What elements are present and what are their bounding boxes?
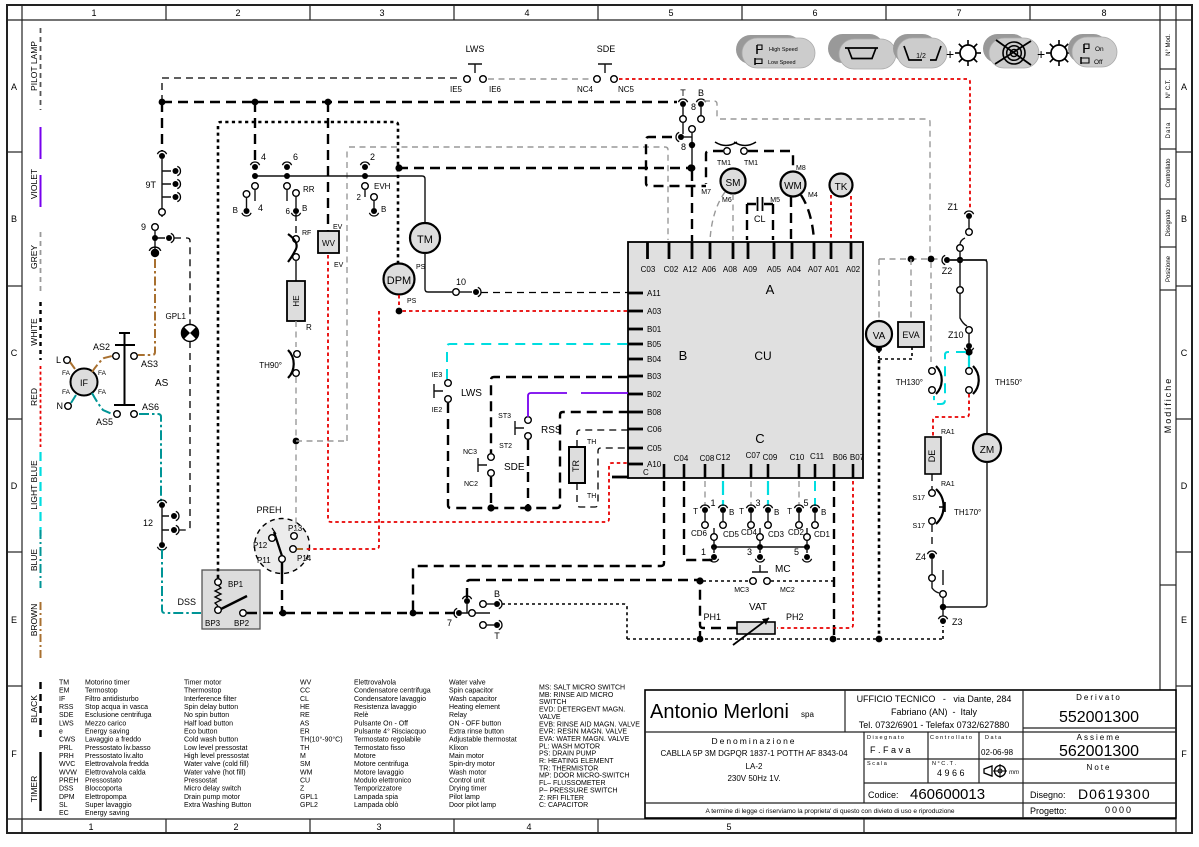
icon speed selector [736, 35, 815, 68]
wire dotted VA trunk [876, 360, 883, 642]
svg-text:RF: RF [302, 230, 311, 237]
svg-text:F . F a v a: F . F a v a [870, 745, 911, 755]
svg-text:MB: RINSE AID MICRO: MB: RINSE AID MICRO [539, 692, 614, 699]
svg-text:WM: WM [300, 769, 313, 776]
wire grey SM M6 [732, 194, 734, 240]
svg-text:NC5: NC5 [618, 85, 635, 94]
svg-text:C: C [755, 431, 764, 446]
color key WHITE [29, 302, 41, 360]
svg-text:2: 2 [357, 193, 362, 202]
svg-text:MP: DOOR MICRO-SWITCH: MP: DOOR MICRO-SWITCH [539, 773, 630, 780]
node 7 [447, 580, 490, 628]
svg-text:E: E [1181, 615, 1187, 625]
switch LWS lower [432, 372, 483, 414]
svg-text:A06: A06 [702, 265, 717, 274]
svg-text:B: B [381, 205, 386, 214]
svg-text:TH(10°-90°C): TH(10°-90°C) [300, 736, 343, 744]
svg-text:C06: C06 [647, 425, 662, 434]
svg-text:B: B [679, 348, 688, 363]
wire grey C08 drop [704, 481, 706, 506]
svg-text:M8: M8 [796, 165, 806, 172]
contact T node8 [678, 88, 687, 134]
svg-text:Lampada oblò: Lampada oblò [354, 802, 398, 809]
svg-text:SWITCH: SWITCH [539, 699, 567, 706]
contact Z1 [947, 202, 973, 235]
svg-text:CL: CL [754, 214, 766, 224]
svg-text:6: 6 [812, 8, 817, 18]
svg-text:RR: RR [303, 185, 315, 194]
svg-text:C03: C03 [641, 265, 656, 274]
svg-text:MC: MC [775, 564, 791, 575]
svg-text:ON - OFF button: ON - OFF button [449, 720, 501, 727]
svg-text:7: 7 [447, 618, 452, 628]
CU bottom pins [664, 464, 853, 478]
svg-text:B: B [698, 88, 704, 98]
svg-text:Z2: Z2 [942, 266, 953, 276]
svg-text:ZM: ZM [980, 445, 994, 456]
svg-text:PRL: PRL [59, 745, 73, 752]
svg-text:GPL2: GPL2 [300, 802, 318, 809]
wire CL leads [747, 204, 773, 240]
svg-text:Disegno:: Disegno: [1030, 790, 1066, 800]
svg-text:VAT: VAT [749, 602, 767, 613]
svg-text:Esclusione centrifuga: Esclusione centrifuga [85, 712, 152, 719]
wire B06 drop [833, 481, 835, 637]
svg-text:BP3: BP3 [205, 619, 221, 628]
contact 2 EVH [357, 152, 391, 202]
contact Z10 [948, 327, 974, 351]
svg-text:F: F [1181, 749, 1187, 759]
svg-text:C: C [643, 468, 649, 477]
svg-text:C: C [1181, 348, 1188, 358]
wire red TK leads [831, 195, 851, 240]
svg-text:EVH: EVH [374, 182, 391, 191]
svg-text:Spin-dry motor: Spin-dry motor [449, 761, 496, 768]
svg-text:10: 10 [456, 277, 466, 287]
wire WM M4 [801, 195, 814, 240]
svg-text:BLACK: BLACK [29, 695, 39, 723]
svg-text:1: 1 [88, 822, 93, 832]
wire grey top y147 [349, 147, 668, 240]
svg-text:Termostato fisso: Termostato fisso [354, 745, 405, 752]
svg-text:A08: A08 [723, 265, 738, 274]
svg-text:Extra rinse button: Extra rinse button [449, 729, 504, 736]
svg-text:5: 5 [726, 822, 731, 832]
icon wash tub [828, 34, 896, 69]
svg-text:M7: M7 [701, 189, 711, 196]
ICONS [736, 34, 1117, 69]
svg-text:Relay: Relay [449, 712, 467, 719]
svg-text:CU: CU [300, 778, 310, 785]
svg-text:PRH: PRH [59, 753, 74, 760]
svg-text:T: T [693, 507, 698, 516]
svg-text:EVA: EVA [902, 330, 919, 340]
svg-text:TR: THERMISTOR: TR: THERMISTOR [539, 765, 598, 772]
wire cyan Z10 junction [934, 348, 973, 404]
svg-text:Termostop: Termostop [85, 688, 118, 695]
wire node10 to A11 [481, 292, 628, 294]
svg-text:Pressostato liv.alto: Pressostato liv.alto [85, 753, 143, 760]
svg-text:Elettrovalvola calda: Elettrovalvola calda [85, 769, 146, 776]
svg-text:D i s e g n a t o: D i s e g n a t o [867, 735, 904, 741]
svg-text:C: CAPACITOR: C: CAPACITOR [539, 802, 588, 809]
svg-text:Filtro antidisturbo: Filtro antidisturbo [85, 696, 139, 703]
svg-text:mm: mm [1009, 770, 1019, 776]
wire dotted bottom y639 [627, 626, 943, 642]
svg-text:RE: RE [300, 712, 310, 719]
svg-text:Bloccoporta: Bloccoporta [85, 786, 122, 793]
switch TH170 [913, 474, 982, 549]
wire TR top to C06 [577, 430, 628, 447]
svg-text:Z10: Z10 [948, 330, 964, 340]
svg-text:Motore centrifuga: Motore centrifuga [354, 761, 409, 768]
svg-text:A07: A07 [808, 265, 823, 274]
svg-text:FA: FA [62, 370, 71, 377]
svg-text:Fabriano (AN) - Italy: Fabriano (AN) - Italy [891, 707, 978, 717]
node bar 135 [701, 528, 812, 562]
svg-text:Mezzo carico: Mezzo carico [85, 720, 126, 727]
svg-text:PS: PS [416, 264, 426, 271]
filter IF [56, 355, 107, 411]
svg-text:Drying timer: Drying timer [449, 786, 487, 793]
svg-text:BROWN: BROWN [29, 604, 39, 637]
svg-text:NC2: NC2 [464, 481, 478, 488]
wire grey riser x347 [346, 147, 348, 441]
svg-text:Extra Washing Button: Extra Washing Button [184, 802, 252, 809]
svg-text:M: M [300, 753, 306, 760]
svg-text:CD6: CD6 [691, 529, 708, 538]
icon no spin [983, 34, 1039, 68]
water valve WV [318, 224, 344, 269]
CU left pin labels [643, 289, 662, 477]
svg-text:LWS: LWS [461, 388, 482, 399]
svg-text:TR: TR [571, 460, 581, 472]
wire grey C10 drop [798, 481, 800, 506]
wire solid bus y176 [252, 173, 425, 222]
svg-text:N: N [57, 401, 64, 411]
contact 4 on bus [250, 102, 266, 213]
pressostat PREH [253, 505, 312, 574]
svg-text:4: 4 [524, 8, 529, 18]
svg-text:+: + [946, 46, 954, 62]
svg-text:T: T [739, 507, 744, 516]
svg-text:B05: B05 [647, 340, 662, 349]
TITLEBLOCK [645, 690, 1176, 818]
svg-text:Spin delay button: Spin delay button [184, 704, 238, 711]
svg-text:A05: A05 [767, 265, 782, 274]
svg-text:Wash capacitor: Wash capacitor [449, 696, 498, 703]
svg-text:N ° C . T .: N ° C . T . [932, 761, 956, 767]
svg-text:Klixon: Klixon [449, 745, 468, 752]
svg-text:Pulsante On - Off: Pulsante On - Off [354, 720, 408, 727]
svg-text:Drain pump motor: Drain pump motor [184, 794, 241, 801]
wire bus y580 [470, 579, 698, 581]
svg-text:Wash motor: Wash motor [449, 769, 487, 776]
svg-text:C10: C10 [790, 453, 805, 462]
svg-text:SDE: SDE [597, 44, 616, 54]
switch MC [734, 564, 795, 594]
svg-text:Modifiche: Modifiche [1163, 377, 1173, 434]
svg-text:Elettrovalvola fredda: Elettrovalvola fredda [85, 761, 149, 768]
svg-text:RSS: RSS [59, 704, 74, 711]
wire teal node12 to DSS [162, 549, 201, 613]
svg-text:F: F [11, 749, 17, 759]
svg-text:1: 1 [701, 547, 706, 557]
svg-text:EV: EV [333, 224, 343, 231]
svg-text:Pressostato: Pressostato [85, 778, 122, 785]
switch AS [93, 333, 169, 427]
svg-text:Codice:: Codice: [868, 790, 899, 800]
svg-text:6: 6 [286, 207, 291, 216]
svg-text:Motore lavaggio: Motore lavaggio [354, 769, 404, 776]
svg-text:PH1: PH1 [703, 612, 721, 622]
wire DSS BP2 to bus [247, 610, 286, 617]
svg-text:R: R [306, 323, 312, 332]
CU top pins [648, 242, 852, 259]
svg-text:SM: SM [726, 178, 741, 189]
svg-text:MC3: MC3 [734, 587, 749, 594]
CU bottom pin labels [674, 451, 865, 463]
svg-text:2: 2 [370, 152, 375, 162]
wire brown node9 to AS3 [138, 259, 155, 355]
svg-text:TM: TM [59, 680, 69, 687]
svg-text:Water valve (cold fill): Water valve (cold fill) [184, 761, 249, 768]
node 8 lower [676, 126, 695, 241]
svg-text:LWS: LWS [466, 44, 485, 54]
svg-text:UFFICIO TECNICO - via Dant: UFFICIO TECNICO - via Dante, 284 [857, 694, 1012, 704]
svg-text:spa: spa [801, 710, 814, 719]
svg-text:Progetto:: Progetto: [1030, 806, 1067, 816]
thermostat TH130 [896, 366, 942, 394]
svg-text:Water valve: Water valve [449, 680, 486, 687]
svg-text:Assieme: Assieme [1077, 733, 1122, 742]
wire main bus y102 [159, 99, 677, 106]
spin motor SM [701, 169, 745, 205]
color key BLUE [29, 530, 41, 588]
svg-text:C07: C07 [746, 451, 761, 460]
svg-text:PREH: PREH [256, 505, 281, 515]
svg-text:DPM: DPM [387, 275, 411, 287]
wire grey HE chain junction [293, 377, 347, 531]
wire red WV to A10 [328, 255, 628, 522]
wire pilot-lamp bus y78 [162, 78, 461, 102]
svg-text:Low Speed: Low Speed [768, 60, 796, 66]
svg-text:0000: 0000 [1105, 805, 1133, 815]
node Z3 [938, 570, 962, 627]
icon half load [893, 34, 947, 68]
svg-text:552001300: 552001300 [1059, 709, 1139, 726]
svg-text:EVD: DETERGENT MAGN.: EVD: DETERGENT MAGN. [539, 707, 625, 714]
svg-text:A: A [766, 282, 775, 297]
svg-text:C02: C02 [664, 265, 679, 274]
svg-text:Off: Off [1094, 59, 1103, 66]
wire LWS enclosure [448, 403, 628, 512]
thermal cutout TK [830, 174, 853, 197]
drain pump DPM [384, 264, 426, 306]
svg-text:Door pilot lamp: Door pilot lamp [449, 802, 496, 809]
svg-text:LA-2: LA-2 [746, 762, 763, 771]
wire WV drop [327, 102, 329, 231]
svg-text:e: e [59, 729, 63, 736]
svg-text:C09: C09 [763, 453, 778, 462]
color key BROWN [29, 602, 41, 661]
svg-text:BP2: BP2 [234, 619, 250, 628]
svg-text:A: A [1181, 82, 1187, 92]
svg-text:C11: C11 [810, 452, 825, 461]
svg-text:DE: DE [927, 450, 937, 463]
color key BLACK [29, 682, 41, 741]
thermistor TR [569, 439, 596, 500]
svg-text:Condensatore lavaggio: Condensatore lavaggio [354, 696, 426, 703]
color key VIOLET [29, 127, 41, 207]
svg-text:PL: WASH MOTOR: PL: WASH MOTOR [539, 743, 600, 750]
svg-text:WV: WV [300, 680, 312, 687]
svg-text:Derivato: Derivato [1076, 693, 1122, 702]
wire B03 enclosure [491, 377, 628, 453]
svg-text:SL: SL [59, 802, 68, 809]
svg-text:B04: B04 [647, 355, 662, 364]
svg-text:BP1: BP1 [228, 580, 244, 589]
svg-text:2: 2 [235, 8, 240, 18]
svg-text:PH2: PH2 [786, 612, 804, 622]
thermostat TH90 [259, 350, 300, 378]
svg-text:R: HEATING ELEMENT: R: HEATING ELEMENT [539, 758, 614, 765]
svg-text:FA: FA [62, 389, 71, 396]
svg-text:A10: A10 [647, 460, 662, 469]
contact EVH B pair [369, 194, 386, 216]
color key GREY [29, 232, 41, 291]
control unit CU [628, 242, 863, 478]
svg-text:9T: 9T [145, 180, 156, 190]
door delay switch DSS [177, 570, 260, 629]
svg-text:A09: A09 [743, 265, 758, 274]
wire PREH P11 drop [281, 562, 283, 611]
svg-text:C: C [11, 348, 18, 358]
svg-text:WVC: WVC [59, 761, 75, 768]
svg-text:IE5: IE5 [450, 85, 463, 94]
wire red TH150 to DE [933, 394, 969, 436]
svg-text:C04: C04 [674, 454, 689, 463]
svg-text:Super lavaggio: Super lavaggio [85, 802, 132, 809]
motor ZM [973, 434, 1001, 462]
svg-text:3: 3 [747, 547, 752, 557]
svg-text:CU: CU [754, 349, 771, 363]
svg-text:MC2: MC2 [780, 587, 795, 594]
svg-text:IE2: IE2 [432, 407, 443, 414]
node 12 [143, 500, 179, 550]
icon plus sun 1 [946, 40, 981, 66]
CU top pin labels [641, 265, 861, 274]
svg-text:Spin capacitor: Spin capacitor [449, 688, 494, 695]
contact B node7 [480, 589, 502, 609]
color key PILOT LAMP [29, 28, 41, 110]
svg-text:CD4: CD4 [741, 528, 758, 537]
switch SDE lower [463, 449, 525, 505]
svg-text:AS5: AS5 [96, 417, 113, 427]
svg-text:Cold wash button: Cold wash button [184, 737, 238, 744]
svg-text:B: B [233, 206, 238, 215]
wire grey C07 drop [750, 481, 752, 506]
svg-text:P12: P12 [253, 541, 268, 550]
svg-text:AS3: AS3 [141, 359, 158, 369]
wire ZM to Z3 node [946, 462, 987, 607]
wire WM M5 [790, 197, 792, 240]
svg-text:T: T [787, 507, 792, 516]
svg-text:DSS: DSS [177, 597, 196, 607]
contact 4 B pair [233, 191, 251, 216]
svg-text:3: 3 [755, 498, 760, 508]
lamp GPL1 [166, 312, 199, 342]
svg-text:Motorino timer: Motorino timer [85, 680, 130, 687]
svg-text:FA: FA [98, 389, 107, 396]
svg-text:IE3: IE3 [432, 372, 443, 379]
svg-text:Heating element: Heating element [449, 704, 500, 711]
svg-text:4: 4 [258, 203, 263, 213]
svg-text:D0619300: D0619300 [1078, 786, 1151, 802]
capacitor CL [747, 197, 773, 224]
svg-text:B01: B01 [647, 325, 662, 334]
svg-text:SDE: SDE [59, 712, 74, 719]
svg-text:S17: S17 [913, 523, 926, 530]
svg-text:Main motor: Main motor [449, 753, 485, 760]
svg-text:WM: WM [784, 181, 802, 192]
svg-text:12: 12 [143, 518, 153, 528]
svg-text:Pressostat: Pressostat [184, 778, 217, 785]
contacts CD row [691, 498, 831, 539]
svg-text:Timer motor: Timer motor [184, 680, 222, 687]
svg-text:B07: B07 [850, 453, 865, 462]
svg-text:5: 5 [794, 547, 799, 557]
wire C04 to bus [413, 481, 664, 611]
svg-text:TK: TK [835, 182, 848, 193]
color key TIMER [29, 752, 41, 811]
legend column 1 [59, 680, 252, 818]
svg-text:Energy saving: Energy saving [85, 810, 129, 817]
svg-text:E: E [11, 615, 17, 625]
svg-text:Water valve (hot fill): Water valve (hot fill) [184, 769, 246, 776]
wire TM1 left [706, 151, 723, 184]
svg-text:VALVE: VALVE [539, 714, 561, 721]
svg-text:Low level pressostat: Low level pressostat [184, 745, 247, 752]
svg-text:EVR: RESIN MAGN. VALVE: EVR: RESIN MAGN. VALVE [539, 729, 627, 736]
color key RED [29, 366, 41, 447]
svg-text:IF: IF [80, 378, 89, 388]
wire grey Z2 bar [879, 256, 939, 362]
node 9 [141, 222, 174, 250]
svg-text:TH150°: TH150° [995, 378, 1022, 387]
color key LIGHT BLUE [29, 452, 41, 537]
svg-text:3: 3 [379, 8, 384, 18]
svg-text:MS: SALT MICRO SWITCH: MS: SALT MICRO SWITCH [539, 685, 625, 692]
svg-text:TH170°: TH170° [954, 508, 981, 517]
wire red riser to P14 [297, 311, 379, 549]
svg-text:AS: AS [155, 378, 169, 389]
wire brown IF to AS2 [92, 356, 112, 372]
wire cyan C11 drop [814, 481, 816, 506]
svg-text:B: B [729, 508, 734, 517]
svg-text:Data: Data [1166, 122, 1172, 139]
wire node9 to GPL1 wire [174, 238, 190, 325]
contact RR pair [286, 185, 315, 216]
svg-text:Z1: Z1 [947, 202, 958, 212]
svg-text:Resistenza lavaggio: Resistenza lavaggio [354, 704, 417, 711]
svg-text:TM1: TM1 [717, 160, 731, 167]
svg-text:B: B [302, 204, 307, 213]
wire VAT left to bus [696, 577, 737, 642]
valve VA [866, 321, 892, 347]
svg-text:FL– FLUSSOMETER: FL– FLUSSOMETER [539, 780, 606, 787]
relay DE [925, 437, 955, 488]
